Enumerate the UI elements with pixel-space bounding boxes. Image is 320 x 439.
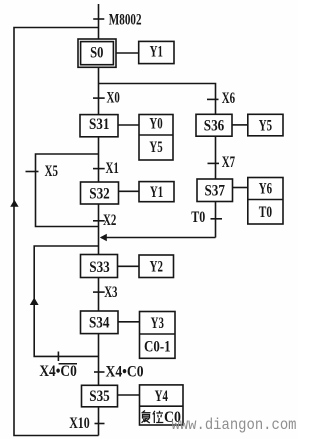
svg-text:X2: X2 (103, 212, 116, 229)
svg-text:S36: S36 (204, 117, 225, 134)
svg-text:X5: X5 (45, 163, 58, 180)
svg-text:Y6: Y6 (259, 181, 272, 198)
svg-text:X7: X7 (222, 154, 235, 171)
svg-text:X4•C0: X4•C0 (39, 363, 76, 380)
svg-text:Y3: Y3 (151, 315, 164, 332)
svg-text:Y2: Y2 (150, 258, 163, 275)
svg-text:Y0: Y0 (149, 115, 162, 132)
svg-text:X3: X3 (104, 284, 117, 301)
svg-text:S34: S34 (89, 315, 110, 332)
svg-text:X4•C0: X4•C0 (106, 364, 144, 381)
svg-text:S0: S0 (90, 44, 103, 61)
svg-text:Y4: Y4 (155, 388, 168, 405)
svg-text:S37: S37 (204, 182, 225, 199)
svg-text:Y1: Y1 (150, 44, 163, 61)
svg-text:Y5: Y5 (259, 117, 272, 134)
svg-text:Y5: Y5 (149, 139, 162, 156)
svg-text:C0-1: C0-1 (144, 338, 171, 355)
svg-text:T0: T0 (259, 204, 272, 221)
svg-text:S33: S33 (89, 259, 110, 276)
svg-text:Y1: Y1 (150, 184, 163, 201)
svg-text:S35: S35 (89, 388, 110, 405)
svg-text:X10: X10 (69, 415, 90, 432)
svg-text:S32: S32 (89, 186, 110, 203)
svg-text:S31: S31 (89, 116, 110, 133)
svg-text:T0: T0 (191, 209, 205, 226)
svg-text:X1: X1 (106, 160, 119, 177)
svg-text:www.diangon.com: www.diangon.com (172, 416, 297, 434)
svg-text:X6: X6 (222, 90, 235, 107)
svg-text:M8002: M8002 (109, 12, 142, 29)
svg-text:X0: X0 (107, 90, 120, 107)
